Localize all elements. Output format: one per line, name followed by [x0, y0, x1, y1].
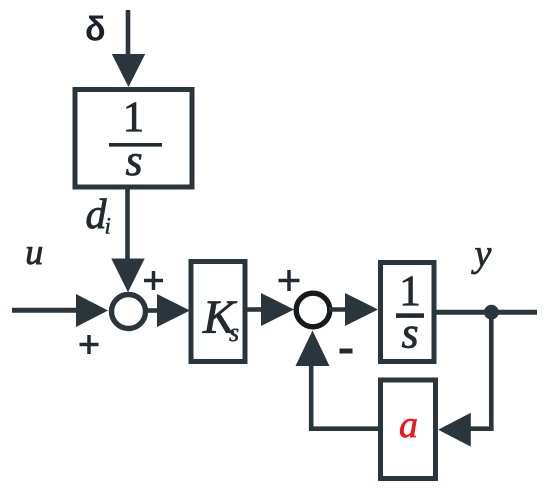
minus sign (feedback input of S2) [340, 349, 353, 354]
arrowhead u into summing junction S1 [76, 294, 108, 327]
svg-text:1: 1 [123, 94, 145, 141]
block U2: integrator 1/s (right) [381, 263, 435, 362]
svg-text:s: s [125, 136, 142, 185]
wire S2 to integrator arrow [329, 307, 347, 312]
wire Ks to S2 arrow [248, 307, 264, 312]
arrowhead into summing junction S1 [111, 259, 144, 293]
wire: U1 output down to summing junction S1 [125, 188, 130, 261]
arrowhead into summing junction S2 [261, 293, 294, 326]
fraction bar of U2 [396, 313, 424, 318]
arrowhead into block a [438, 413, 471, 447]
plus sign (u input of S1) [80, 335, 99, 354]
wire: block a output to the left [309, 426, 378, 431]
node: output pickoff point [484, 305, 499, 320]
fraction bar of U1 [109, 143, 162, 147]
wire: delta input vertical [126, 10, 131, 57]
svg-text:u: u [25, 232, 43, 272]
svg-text:i: i [105, 214, 111, 239]
summing junction S2 [296, 293, 330, 327]
svg-text:a: a [399, 404, 418, 446]
arrowhead into integrator U1 [112, 54, 145, 87]
svg-text:s: s [401, 309, 418, 358]
arrowhead into integrator U2 [345, 293, 378, 326]
block U1: integrator 1/s (top) [75, 90, 192, 188]
wire: feedback up to summing junction S2 [309, 365, 314, 431]
wire: feedback toward block a [469, 426, 494, 431]
svg-text:y: y [471, 233, 492, 275]
svg-text:δ: δ [85, 11, 106, 49]
wire: u input horizontal [12, 308, 80, 313]
summing junction S1 [112, 295, 146, 329]
svg-text:s: s [229, 318, 239, 347]
arrowhead into S2 from below [296, 331, 330, 367]
plus sign (d_i input of S1) [144, 271, 163, 290]
block Ks (gain) [191, 262, 245, 362]
block a (feedback gain) [381, 380, 436, 479]
wire: output horizontal [434, 310, 537, 315]
arrowhead into block Ks [157, 294, 190, 327]
wire S1 to Ks arrow [145, 308, 159, 313]
plus sign (forward input of S2) [279, 270, 300, 291]
wire: feedback down from node [489, 312, 494, 429]
